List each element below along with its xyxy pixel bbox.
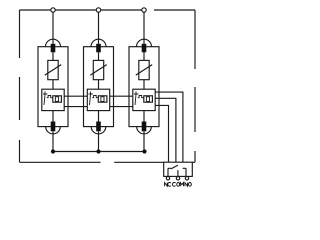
varistor RV2 body [93,60,103,79]
thermal disconnect F1b arc (bottom) [46,127,61,134]
label NO [185,183,191,187]
enclosure dashed border, left side [19,10,21,162]
monitor 2 indicator bar [101,97,104,102]
contact K1 NC post [168,168,171,176]
wire F3b to bottom bus [143,131,145,151]
SPD module 1 outline box [38,47,68,127]
terminal NO [185,177,188,180]
wire terminal 2 to disconnect F2a [98,12,100,44]
thermal disconnect F3a contact block [142,44,147,53]
contact K1 COM post [177,170,179,176]
monitor 3 indicator bar [146,97,149,102]
monitor 1 indicator window [53,96,62,102]
monitor 3 indicator window [144,96,153,102]
thermal disconnect F2a contact block [96,44,101,53]
terminal COM [176,177,179,180]
monitor 2 pulse glyph [92,96,98,98]
signal wire COM from monitor 3 to remote contact [155,98,176,162]
junction node 1 on bottom bus [51,149,55,153]
bottom bus wire [53,151,145,153]
terminal 2 (line input) [96,8,100,12]
monitor 3 actuator glyph [134,91,138,105]
terminal 1 (line input) [51,8,55,12]
thermal disconnect F1a contact block [51,44,56,53]
function monitoring box 2 [87,89,109,110]
monitor 1 indicator bar [55,97,58,102]
varistor RV1 body [48,60,58,79]
SPD module 2 outline box [84,47,114,127]
contact K1 NO post [183,168,186,176]
thermal disconnect F2b contact block (bottom) [96,122,101,132]
thermal disconnect F1a arc (top) [46,39,61,47]
wire F2b to bottom bus [98,131,100,151]
monitor 1 actuator glyph [43,91,47,105]
enclosure dashed border, top side [20,9,196,11]
wire monitor box to disconnect F2b [98,111,100,122]
wire monitor box to disconnect F1b [52,111,54,122]
monitor 1 pulse glyph [47,96,53,98]
wire terminal 3 to disconnect F3a [143,12,145,44]
enclosure dashed border, bottom side [20,161,196,163]
monitor 3 pulse glyph [138,96,144,98]
junction node 3 on bottom bus [142,149,146,153]
terminal 3 (line input) [142,8,146,12]
wire RV2 to monitor box [98,80,100,90]
SPD 3-pole surge arrester circuit diagram [0,0,211,194]
monitor link wires module 2 to module 3 [110,96,133,106]
varistor RV3 body [139,60,149,79]
wire F3a to varistor RV3 [143,52,145,60]
function monitoring box 1 [42,89,64,110]
thermal disconnect F1b contact block (bottom) [51,122,56,132]
enclosure dashed border, right side [194,10,196,162]
wire F1b to bottom bus [52,131,54,151]
wire monitor box to disconnect F3b [143,111,145,122]
wire RV1 to monitor box [52,80,54,90]
label NC [165,182,171,186]
varistor RV3 diagonal stroke [136,65,152,76]
monitor link wires module 1 to module 2 [64,96,87,106]
wire F1a to varistor RV1 [52,52,54,60]
junction node 2 on bottom bus [96,149,100,153]
monitor 2 actuator glyph [89,91,93,105]
wire RV3 to monitor box [143,80,145,90]
thermal disconnect F3b arc (bottom) [137,127,152,134]
terminal NC [166,177,169,180]
remote signalling contact box K1 [164,162,193,176]
varistor RV2 diagonal stroke [90,65,106,76]
signal wire NC from monitor 3 to remote contact [155,105,168,162]
wire F2a to varistor RV2 [98,52,100,60]
thermal disconnect F3b contact block (bottom) [142,122,147,132]
monitor 2 indicator window [98,96,107,102]
SPD module 3 outline box [129,47,159,127]
function monitoring box 3 [133,89,155,110]
signal wire NO from monitor 3 to remote contact [155,92,183,162]
label COM [172,182,183,186]
thermal disconnect F2b arc (bottom) [91,127,106,134]
thermal disconnect F3a arc (top) [137,39,152,47]
contact K1 changeover arm [171,165,178,169]
thermal disconnect F2a arc (top) [91,39,106,47]
varistor RV1 diagonal stroke [45,65,61,76]
wire terminal 1 to disconnect F1a [52,12,54,44]
